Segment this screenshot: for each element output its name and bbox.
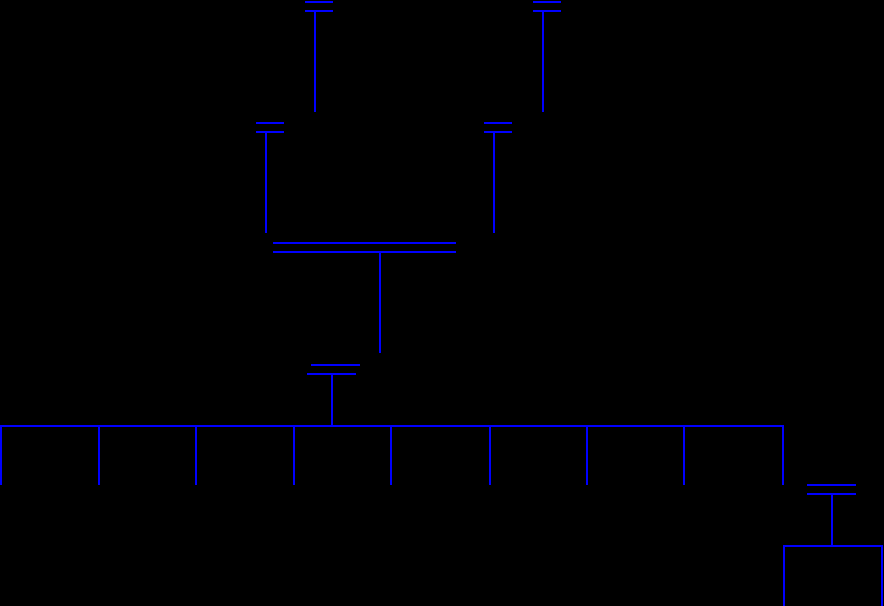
union symbol U4 bottom bar [484,131,512,133]
wire U6 descent stem [831,495,833,545]
union symbol U2 top bar [533,1,561,3]
wire M1 descent stem [379,253,381,353]
wire child tick 2 [98,425,100,485]
wire U1 descent stem [314,12,316,112]
wire child tick 3 [195,425,197,485]
wire child tick 7 [586,425,588,485]
union symbol U5 bottom bar [307,373,356,375]
wire child tick 1 [0,425,2,485]
union symbol U5 top bar [311,364,360,366]
box B1 top edge [783,545,883,547]
wire U4 descent stem [493,133,495,233]
wire child tick 9 [782,425,784,485]
box B1 right edge [881,545,883,606]
union symbol U3 bottom bar [256,131,284,133]
union symbol U1 bottom bar [305,10,333,12]
union symbol U1 top bar [305,1,333,3]
wire child tick 5 [390,425,392,485]
marriage line M1 upper [273,242,456,244]
wire child tick 4 [293,425,295,485]
wire child tick 8 [683,425,685,485]
wire child tick 6 [489,425,491,485]
box B1 left edge [783,545,785,606]
union symbol U2 bottom bar [533,10,561,12]
union symbol U3 top bar [256,122,284,124]
union symbol U6 top bar [807,484,856,486]
wire U2 descent stem [542,12,544,112]
wire U5 descent stem [331,375,333,425]
wire sibling rail [0,425,784,427]
wire U3 descent stem [265,133,267,233]
marriage line M1 lower [273,251,456,253]
union symbol U4 top bar [484,122,512,124]
union symbol U6 bottom bar [807,493,856,495]
